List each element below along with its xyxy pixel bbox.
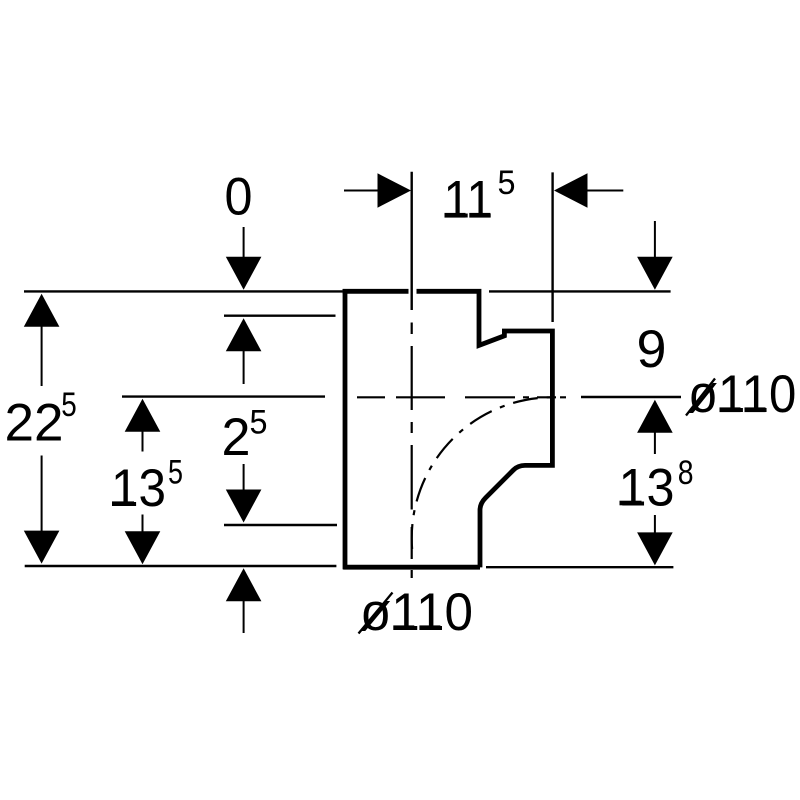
svg-text:11: 11 (444, 171, 494, 230)
svg-text:5: 5 (250, 403, 268, 441)
side branch axis reference left (122, 395, 325, 397)
svg-text:22: 22 (5, 394, 64, 453)
svg-text:13: 13 (111, 459, 166, 518)
svg-text:5: 5 (498, 164, 516, 202)
horizontal center line (dash-dot) (357, 396, 566, 398)
dim 22.5 top arrow (24, 294, 60, 327)
dim 13.5 bottom arrow (142, 515, 144, 533)
top reference line (level 0) (24, 290, 343, 292)
right branch axis reference (581, 396, 681, 398)
dim 13.5 top arrow (125, 399, 161, 432)
vertical extension line center (solid top part) (411, 172, 413, 310)
reference line y=316 (224, 315, 336, 317)
svg-text:2: 2 (222, 408, 251, 467)
up arrow below bottom line (226, 568, 262, 601)
fitting left edge (343, 289, 348, 569)
dim 22.5 bottom arrow (41, 456, 43, 532)
dim 13.8 top arrow (637, 400, 673, 433)
svg-text:8: 8 (678, 454, 694, 492)
top reference line right portion (489, 290, 671, 292)
fitting outline right side (417, 291, 553, 567)
fitting top face left segment (343, 289, 409, 294)
bottom reference line right (486, 566, 673, 568)
up arrow at y316 line (226, 318, 262, 351)
level 0 marker arrow (243, 227, 245, 258)
reference line y=525 (224, 524, 337, 526)
bottom reference line left (25, 565, 337, 567)
dim 11.5 left arrow (344, 190, 379, 192)
svg-text:ø110: ø110 (688, 365, 796, 424)
svg-text:5: 5 (168, 454, 183, 492)
dim 11.5 right arrow (554, 173, 588, 207)
svg-text:5: 5 (61, 386, 77, 424)
down arrow at y525 line (243, 464, 245, 490)
dim 9 top arrow (654, 221, 656, 258)
fitting bottom face (343, 565, 480, 570)
svg-text:13: 13 (619, 458, 675, 517)
svg-text:9: 9 (637, 320, 667, 379)
dim 13.8 bottom arrow (654, 515, 656, 533)
vertical extension line right (551, 172, 553, 322)
vertical center line (dash-dot) (411, 323, 413, 579)
svg-text:0: 0 (225, 168, 253, 227)
flow arc center line (dash-dot) (412, 397, 553, 549)
